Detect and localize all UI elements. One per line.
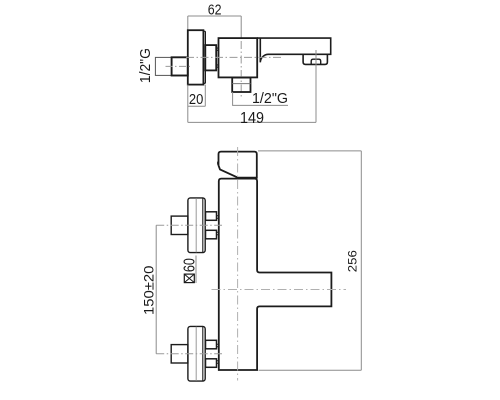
dimension text 256 (rotated) (345, 250, 359, 272)
svg-text:149: 149 (240, 110, 264, 127)
dimension line 256 (360, 151, 362, 370)
leader line for 1/2"G outlet (233, 92, 288, 105)
bottom outlet (top view) (232, 78, 250, 92)
upper tab top (217, 216, 219, 219)
svg-text:20: 20 (189, 92, 203, 108)
label 1/2"G (left, rotated) (138, 48, 154, 83)
lower connection flange (188, 326, 205, 381)
main horizontal centerline (top view) (186, 56, 281, 58)
upper connection pipe stub (171, 216, 188, 234)
extension line bottom for 256 (259, 369, 362, 371)
dimension line 149 (188, 121, 316, 123)
extension line right for 62 (to outlet centre) (240, 16, 242, 38)
handle left tick (217, 162, 220, 165)
inlet pipe centerline (166, 65, 192, 67)
svg-text:1/2"G: 1/2"G (138, 48, 154, 83)
lower connection pipe stub (171, 345, 188, 363)
label square-60 (rotated) (181, 258, 198, 283)
dimension text 150±20 (rotated) (140, 265, 156, 315)
wall flange (top view) (188, 30, 204, 84)
connector tab upper (216, 48, 218, 50)
extension line top for 256 (258, 150, 361, 152)
bottom outlet inner line (232, 83, 250, 85)
vertical body centerline (front view) (237, 147, 239, 381)
spout (top view) (257, 38, 331, 62)
svg-text:150±20: 150±20 (140, 265, 156, 315)
inlet pipe inner segment (top view) (172, 57, 188, 75)
svg-text:1/2"G: 1/2"G (252, 91, 288, 107)
vertical centerline through outlet (240, 41, 242, 98)
extension line wall face below flange (187, 85, 189, 123)
lower flange shading line (195, 327, 197, 381)
lower nut bottom half (206, 359, 217, 368)
lower nut top half (206, 340, 217, 349)
aerator housing under spout end (303, 54, 327, 64)
inlet pipe outer segment (top view) (155, 57, 171, 75)
dimension line 20 (188, 105, 206, 107)
upper tab bottom (217, 232, 219, 235)
leader line for square-60 (195, 256, 197, 284)
handle (front view) (219, 152, 257, 178)
spout centerline (front view) (212, 289, 347, 291)
upper connection flange (188, 198, 205, 253)
extension line right for 149 (to aerator) (315, 50, 317, 122)
upper flange inner edge line (202, 199, 204, 253)
wall flange outer strip (203, 31, 205, 83)
dimension line 150±20 (155, 225, 157, 353)
lower tab top (217, 344, 219, 347)
mixer body with spout (front view) (219, 179, 332, 370)
upper connection centerline (156, 224, 222, 226)
lower flange inner edge line (202, 327, 204, 381)
mixer body (top view) (219, 38, 258, 77)
lower connection centerline (156, 353, 222, 355)
connector tab lower (216, 65, 218, 67)
upper nut bottom half (206, 230, 217, 239)
upper nut top half (206, 212, 217, 221)
dimension line 62 (188, 15, 241, 17)
upper flange shading line (195, 198, 197, 252)
extension line left (wall face) for 62 (187, 16, 189, 30)
lower tab bottom (217, 361, 219, 364)
aerator nozzle (311, 59, 321, 64)
connector nut (top view) (205, 45, 216, 70)
extension line right for 20 (204, 85, 206, 107)
svg-text:256: 256 (345, 250, 359, 272)
